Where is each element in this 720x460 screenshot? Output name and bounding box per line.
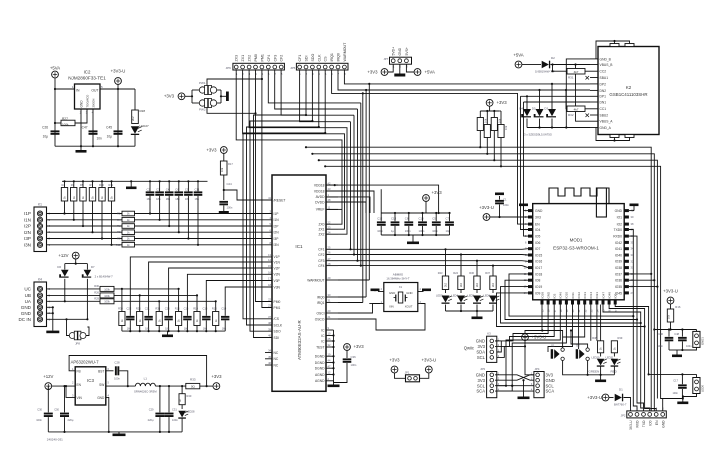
svg-text:IO3: IO3 [553,293,557,298]
svg-text:/RESET: /RESET [274,198,286,202]
LED LED6 [492,290,494,294]
svg-text:IO5: IO5 [535,235,540,239]
wire cap bank rails to IC1 power [380,189,382,213]
svg-text:10k: 10k [220,167,224,172]
resistor R27 100k [55,122,61,124]
chassis bar at PW [221,95,226,97]
svg-text:GND: GND [97,396,105,400]
svg-text:D6: D6 [57,265,61,269]
svg-text:C45: C45 [106,126,112,130]
svg-text:I2N: I2N [274,231,280,235]
wires JP1 [395,373,406,378]
wire VDD18 to cap bank [326,185,439,213]
svg-text:R1: R1 [117,212,121,216]
resistor R39 LED red [611,341,617,353]
no-connect cross SBU2 [586,114,590,118]
header JP5 [296,63,348,70]
svg-text:+5VA: +5VA [513,53,523,58]
svg-text:C15: C15 [203,307,208,311]
svg-text:R23: R23 [438,271,443,275]
wire VBUS_B to VBUS_A tie [576,65,591,122]
svg-text:I3P: I3P [24,236,31,241]
crystal gnd right [418,291,424,293]
svg-text:300ON: 300ON [92,99,96,108]
header JP2 [627,411,667,418]
svg-text:IO35: IO35 [615,285,622,289]
header JP6 [233,63,285,70]
wire SPI bus SDI to ESP32 [306,147,651,411]
connector K1 [34,207,47,252]
svg-text:SDI: SDI [274,336,280,340]
svg-text:18n: 18n [127,327,132,330]
svg-text:XOUT: XOUT [405,305,413,309]
svg-text:3V3: 3V3 [535,215,541,219]
svg-text:IO15: IO15 [535,253,542,257]
svg-text:SCL: SCL [477,355,486,360]
svg-text:VREF: VREF [316,208,325,212]
svg-text:3V3-U: 3V3-U [629,420,633,430]
svg-text:100k: 100k [104,294,110,298]
svg-text:PW1: PW1 [199,81,206,85]
zener diode D4 [526,96,528,109]
resistor R30 100k [100,286,114,291]
svg-text:IO17: IO17 [535,266,542,270]
wire vertical WARMOUT to IC1 [368,84,370,280]
svg-text:C11: C11 [195,188,200,192]
wire vertical IRQ0 to IC1 [365,90,367,297]
svg-text:5VS+: 5VS+ [405,47,409,55]
svg-text:18n: 18n [195,197,200,201]
power +3V3-U at ESP32 [483,214,490,221]
svg-text:220µ: 220µ [148,418,154,422]
svg-text:CF4: CF4 [267,55,271,62]
ground ESP32 pin1 [524,210,529,212]
svg-text:ZX1: ZX1 [318,228,324,232]
connector K3 Qwiic [487,336,497,362]
svg-text:GND_A: GND_A [600,126,612,130]
svg-text:GND1: GND1 [701,337,705,345]
ground at buttons [600,375,602,380]
wire OSCO to crystal [338,304,425,331]
wire IO36 tap to bus [629,279,654,281]
svg-text:JP4: JP4 [535,367,540,371]
svg-text:+12V: +12V [43,374,53,379]
svg-text:SCA: SCA [476,389,485,394]
svg-text:2k2: 2k2 [445,282,448,287]
capacitors C12 C13 C8 C10 C5 C7 [377,213,454,235]
svg-text:100n: 100n [419,229,425,233]
ground at IC3 [118,432,120,434]
svg-text:I1P: I1P [274,212,280,216]
svg-text:L1: L1 [144,377,148,381]
capacitor C50 220u [64,386,66,412]
node PW right [220,90,222,103]
resistor R17 reset pullup [220,161,227,175]
svg-text:10µ: 10µ [43,135,49,139]
svg-text:CS: CS [324,56,328,62]
K2 pin stubs and labels [590,57,613,130]
svg-text:IO36: IO36 [615,279,622,283]
svg-text:CC1: CC1 [600,107,607,111]
connector K6 2-pin [693,378,700,394]
svg-text:MOD1: MOD1 [570,238,583,243]
wire CF1 vertical right of IC1 [350,122,352,250]
jumper JP1 [406,375,420,382]
wire USB DN1 line [524,101,591,103]
capacitor C31 100n [168,386,170,412]
svg-text:IO40: IO40 [615,253,622,257]
resistor R12 1k [122,242,135,247]
power +3V3 at cap bank [423,195,430,202]
svg-text:GND: GND [661,420,665,428]
LED LED4 [460,290,462,294]
svg-text:JP8: JP8 [75,342,80,346]
power +5VA at K2 [515,61,522,68]
svg-text:R13: R13 [212,307,217,311]
wire VDD18 second [326,191,374,213]
LED28 [181,405,183,409]
svg-text:R28: R28 [140,109,146,113]
svg-text:GREEN: GREEN [589,370,600,374]
row wires K1 to IC1 [47,214,273,245]
wire R27 to IC2 pin3 [75,109,87,123]
resistor R26 100k [100,293,114,298]
RC bank top connections [121,257,272,312]
svg-text:D4: D4 [519,107,523,111]
LED LED5 [476,290,478,294]
svg-text:R14: R14 [193,307,198,311]
wire JP5 pin3 SDO staircase left [250,70,312,331]
resistor R33 0R [186,383,200,388]
svg-text:3 x SZESD9L5.0AT5G: 3 x SZESD9L5.0AT5G [524,133,552,137]
svg-text:DN1: DN1 [600,100,607,104]
svg-text:GND: GND [389,291,395,295]
svg-text:IO6: IO6 [535,241,540,245]
wire CF4 bus line [361,265,522,267]
svg-text:GND: GND [476,339,485,344]
svg-text:R16: R16 [675,305,681,309]
LED31 RED [613,353,615,357]
svg-text:IRQ1: IRQ1 [317,301,325,305]
K2 shield tab bottom [610,135,619,138]
svg-text:100n: 100n [686,345,692,348]
svg-text:100n: 100n [114,377,120,381]
svg-text:ZX2: ZX2 [248,55,252,62]
wire S2 top [571,331,588,348]
wire VREF stub [326,208,342,210]
svg-text:D7: D7 [91,265,95,269]
svg-text:SCL: SCL [546,383,555,388]
diode D7 B140HW-7 [86,264,88,270]
power +3V3-U at K3 [522,334,529,341]
svg-text:IO18: IO18 [535,272,542,276]
svg-text:4k7: 4k7 [574,70,579,74]
svg-text:+3V3: +3V3 [367,69,378,74]
wire SPI bus CLK to ESP32 [319,160,658,398]
capacitor C47 10n [89,130,98,132]
button S1 [551,349,553,359]
LED29 GREEN [600,353,602,357]
ground at LEDs [476,311,478,317]
svg-text:16.384MHz SHY-T: 16.384MHz SHY-T [386,277,410,281]
svg-text:3V3: 3V3 [478,344,486,349]
RC bank bottom rail [122,330,225,332]
svg-text:C12: C12 [377,217,383,221]
ground rail zeners to GND_A [526,119,528,128]
wire CF4 vertical right of IC1 [360,103,362,266]
IC IC1 ATM90E32AS-AU-R [272,175,326,391]
svg-text:IO21: IO21 [595,292,599,299]
wire SPI bus CS to ESP32 [325,166,683,398]
svg-text:+12V: +12V [58,253,68,258]
power +5VA [52,71,59,78]
IC1 NC stubs [265,352,272,354]
svg-text:NC: NC [274,363,279,367]
svg-text:IO46: IO46 [559,292,563,299]
svg-text:V3P: V3P [274,279,281,283]
svg-text:+5VA: +5VA [425,69,435,74]
svg-text:CF4: CF4 [318,264,324,268]
power +3V3-U at R16 [667,297,674,304]
svg-text:SW: SW [99,383,104,387]
svg-text:+3V3: +3V3 [354,344,365,349]
svg-text:+3V3-U: +3V3-U [587,395,602,400]
svg-text:IO0: IO0 [648,420,652,425]
wire PW1 top loop [207,79,262,86]
svg-text:IO37: IO37 [615,272,622,276]
svg-text:R36: R36 [469,271,474,275]
svg-text:WARMOUT: WARMOUT [307,278,324,282]
svg-text:XIN: XIN [389,305,394,309]
svg-text:3V3: 3V3 [478,378,486,383]
zener diode D3 [551,84,553,109]
svg-text:GND: GND [476,372,485,377]
wire JP6 pin2 ZX1 route [243,70,345,229]
svg-text:R25: R25 [136,307,141,311]
wire TXD0 to JP2 [629,230,637,412]
svg-text:18n: 18n [165,327,170,330]
jumper JP8 [69,333,75,339]
svg-text:PM1: PM1 [274,306,281,310]
svg-text:S1: S1 [551,344,555,348]
power +3V3 output of IC3 [213,383,220,390]
fuse PW1 [192,89,199,91]
wire K4 GND rows [47,306,53,308]
svg-text:R34: R34 [118,307,123,311]
power +3V3-U at IC2 output [115,78,122,85]
svg-text:SCL: SCL [477,383,486,388]
ground at cap bank [412,235,414,242]
svg-text:D3: D3 [544,107,548,111]
ground bar K4 [46,331,59,334]
svg-text:IO47: IO47 [601,292,605,299]
ground at C24 [219,211,229,214]
capacitor C46 [668,330,670,337]
svg-text:I2P: I2P [274,224,280,228]
svg-text:R30: R30 [94,284,99,288]
wire PW2 bottom loop [207,108,256,114]
wire ESP32 bottom pin drops [495,305,656,412]
svg-text:C8: C8 [405,217,409,221]
crystal gnd left [378,291,384,293]
wire +3V3-U to buttons [542,331,562,348]
wire JP5 pin1 CF1 route [300,70,351,121]
connector K4 [34,282,47,327]
svg-text:I2P: I2P [24,224,31,229]
no-connect cross SBU1 [586,76,590,80]
svg-text:GND: GND [535,209,543,213]
svg-text:AGND: AGND [315,373,325,377]
svg-text:DGND: DGND [315,355,325,359]
svg-text:IRQ1: IRQ1 [330,53,334,61]
power +3V3 pull-up bank [486,99,493,106]
svg-text:240240-031: 240240-031 [47,438,63,442]
svg-text:JP7: JP7 [383,57,388,61]
RC divider bank resistors and capacitors [118,305,229,331]
wire JP5 pin5 CS staircase left [243,70,325,318]
svg-text:+3V3: +3V3 [432,190,443,195]
wire CF1 bus line [351,248,523,250]
svg-text:JP6: JP6 [226,66,232,70]
svg-text:IO10: IO10 [565,292,569,299]
svg-text:I3P: I3P [274,237,280,241]
resistor R1 1k [122,211,135,216]
svg-text:R27: R27 [62,117,68,121]
svg-text:GND_B: GND_B [600,57,612,61]
wire +12V branch [65,263,88,265]
svg-text:IO8: IO8 [535,279,540,283]
wire JP3 SCL row [495,385,534,387]
svg-text:IO13: IO13 [583,292,587,299]
svg-text:C17: C17 [673,379,678,383]
svg-text:SBU1: SBU1 [600,76,609,80]
wire SPI bus SDO to ESP32 [312,154,654,411]
IC3 GND wire [106,397,109,432]
connector K5 2-pin [693,331,700,347]
wire DVDD to caps [326,202,366,213]
svg-text:C30: C30 [37,408,42,412]
svg-text:CF3: CF3 [318,259,324,263]
resistor R31 4k7 [585,70,590,72]
resistor R23 LED series [444,248,446,250]
svg-text:100n: 100n [672,392,678,395]
svg-text:GND: GND [80,100,84,108]
svg-text:100k: 100k [104,287,110,291]
power +3V3 at PW network [178,93,185,100]
svg-text:ZX3: ZX3 [235,55,239,62]
svg-text:+3V3-U: +3V3-U [663,289,678,294]
svg-text:C31: C31 [172,408,177,412]
capacitor C28 100n [106,370,114,372]
wire IRQ0 line JP5 pin7 to K2 [338,70,590,90]
ground symbol IC2 block [80,146,82,150]
wires JP3 JP4 crossover X [495,375,534,380]
module MOD1 ESP32-S3-WROOM-1 body [533,204,625,300]
svg-text:2k2: 2k2 [492,282,495,287]
svg-text:R12: R12 [116,243,121,247]
svg-text:PM0: PM0 [274,300,281,304]
svg-text:GND: GND [546,378,555,383]
svg-text:R37: R37 [485,271,490,275]
wire CF3 bus line [358,260,523,262]
svg-text:GND: GND [615,209,623,213]
svg-text:VDD18: VDD18 [314,189,325,193]
power +3V3 feeding JP7 [381,69,388,76]
svg-text:IO4: IO4 [535,228,540,232]
svg-text:OSCI: OSCI [316,311,324,315]
wire JP6 pin1 ZX3 route [236,70,342,224]
svg-text:IO38: IO38 [615,266,622,270]
svg-text:V2N: V2N [274,273,281,277]
LED27 [131,126,139,133]
svg-text:GND: GND [406,291,412,295]
svg-text:C1: C1 [503,198,507,202]
svg-text:IO48: IO48 [607,292,611,299]
svg-text:18n: 18n [203,327,208,330]
svg-text:NC: NC [274,351,279,355]
wire JP5 pin4 CLK staircase left [247,70,319,325]
svg-text:100n: 100n [351,363,357,367]
svg-text:UA: UA [25,299,32,304]
wire +3V3-U down to JP4 [525,341,534,375]
svg-text:V1N: V1N [274,260,281,264]
LED bottom rail [446,310,494,312]
IC1 bottom right gnd stubs [326,330,335,383]
resistor R21 pull-up [493,111,495,118]
wire IC2 OUT to +3V3-U [100,88,135,90]
svg-text:R9: R9 [117,237,121,241]
svg-text:R40: R40 [187,394,192,398]
svg-text:LED0: LED0 [701,385,705,392]
svg-text:RXD: RXD [636,420,640,428]
svg-text:R17: R17 [228,162,233,166]
svg-text:FB: FB [77,369,81,373]
svg-text:X1: X1 [399,285,403,289]
svg-text:VIN: VIN [77,396,83,400]
resistor R8 1k [122,230,135,235]
wire +5VA to IC2 IN [54,78,56,146]
svg-text:C24: C24 [227,182,233,186]
svg-text:UC: UC [24,287,31,292]
svg-text:R32: R32 [568,113,574,117]
IC1 left pin labels [268,196,285,367]
resistor R4 1k [122,217,135,222]
ground at IC1 [333,381,335,385]
wire K5 [696,330,698,332]
svg-text:R8: R8 [117,230,121,234]
svg-text:C10: C10 [419,217,425,221]
wire JP6 pin7 CF3 route [275,70,358,109]
svg-text:ESP32-S3-WROOM-1: ESP32-S3-WROOM-1 [553,246,599,251]
wire L1 to R33 [155,385,185,387]
capacitor C36 at IC1 right [344,344,351,351]
wire IC2 pin4 down [92,109,94,146]
svg-text:GND: GND [21,311,32,316]
svg-text:BAT760-7: BAT760-7 [614,403,627,407]
svg-text:C46: C46 [658,332,663,336]
wire reset to IC1 [224,190,272,200]
ESP32 left pins [524,209,543,296]
svg-text:C28: C28 [114,361,120,365]
capacitor C45 10u [117,89,119,146]
svg-text:100k: 100k [62,122,69,126]
wire JP6 pin5 PM1 route [262,70,272,307]
svg-text:ZX0: ZX0 [318,223,324,227]
svg-text:D5: D5 [532,107,536,111]
LED LED3 [445,290,447,294]
ground ESP32 pin40 [629,210,634,212]
svg-text:TEST: TEST [316,345,324,349]
